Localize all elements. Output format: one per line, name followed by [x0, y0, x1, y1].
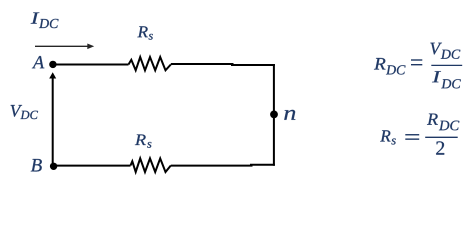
- node A dot: [49, 61, 56, 68]
- eq2 fraction bar: [425, 136, 458, 138]
- eq2 num sub DC: [439, 121, 459, 131]
- label VDC main: [11, 105, 23, 117]
- label IDC main: [31, 13, 40, 24]
- label A: [32, 56, 44, 68]
- resistor R_s top (zigzag): [129, 57, 171, 70]
- eq1 R: [374, 58, 386, 70]
- label VDC sub: [20, 111, 38, 119]
- eq2 denom 2: [436, 141, 444, 154]
- eq1 V: [430, 43, 442, 55]
- resistor R_s bottom (zigzag): [131, 158, 171, 172]
- wire bottom right (midpoint to resistor Rs bottom): [171, 165, 253, 167]
- eq1 I sub DC: [441, 79, 461, 88]
- wire top right (midpoint to corner, slightly lower): [231, 64, 275, 66]
- label B: [31, 159, 42, 172]
- IDC current arrow (pointing right): [35, 44, 94, 50]
- wire right vertical: [273, 64, 275, 166]
- label IDC sub: [39, 19, 59, 28]
- label Rs bot R: [135, 135, 146, 146]
- eq1 equals sign: [411, 60, 422, 65]
- wire bottom right (corner to midpoint, slightly higher): [250, 164, 275, 166]
- label Rs top s: [149, 34, 153, 40]
- label Rs bot s: [147, 142, 151, 148]
- eq2 equals sign: [405, 135, 419, 139]
- wire top (node A to resistor Rs top): [53, 64, 129, 66]
- eq2 num R: [427, 114, 438, 125]
- wire top right (resistor to midpoint): [171, 63, 234, 65]
- label n: [284, 110, 295, 120]
- wire bottom left (resistor to node B): [53, 165, 131, 167]
- eq1 fraction bar: [431, 64, 462, 66]
- eq1 I: [432, 71, 441, 82]
- node B dot: [50, 163, 57, 170]
- eq2 s sub: [391, 139, 395, 145]
- label Rs top R: [137, 26, 147, 37]
- VDC voltage arrow (B to A, pointing up): [49, 72, 56, 163]
- node n dot: [270, 111, 278, 119]
- eq1 V sub DC: [441, 50, 461, 59]
- eq2 R: [380, 130, 390, 141]
- eq1 R sub DC: [386, 65, 406, 74]
